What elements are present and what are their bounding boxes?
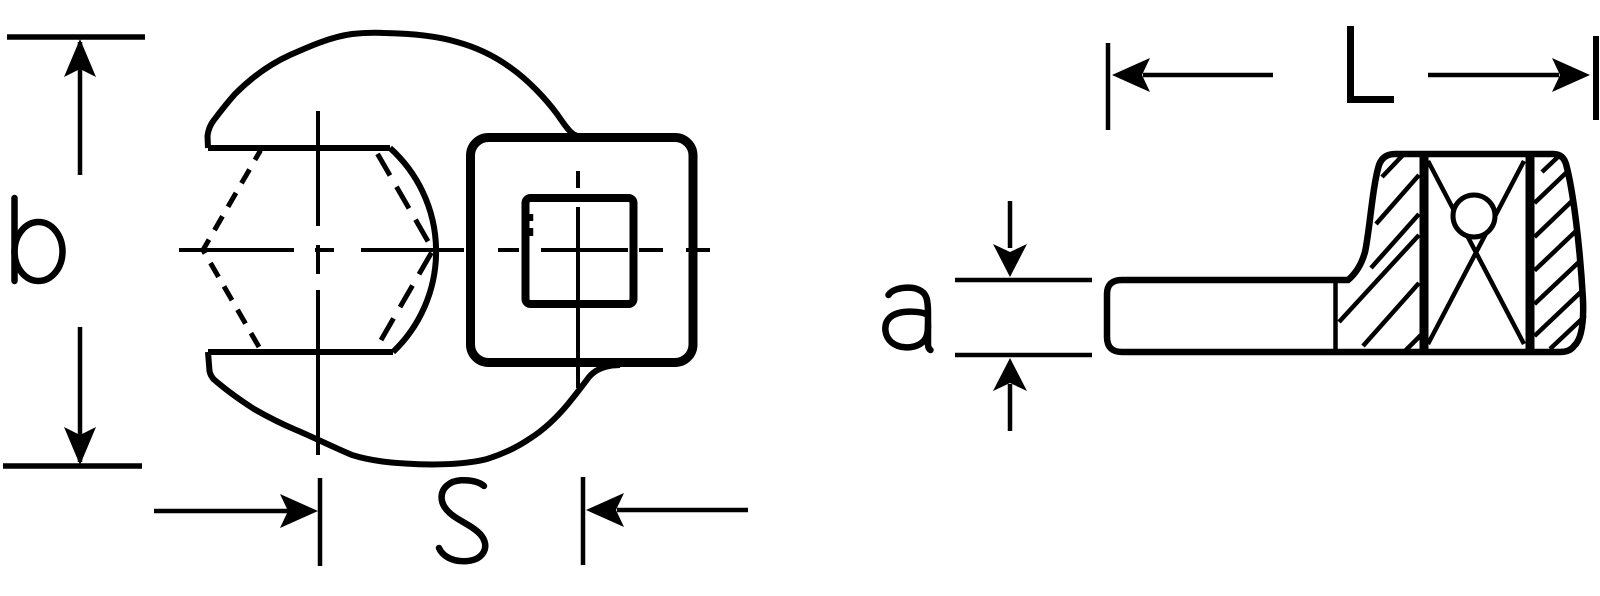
dimension b lower arrowhead bbox=[64, 427, 96, 465]
left hatch lines bbox=[1339, 155, 1423, 352]
dashed hexagon (nut) right edges bbox=[376, 150, 434, 349]
label a bbox=[885, 288, 930, 350]
dimension L right arrow line bbox=[1428, 73, 1559, 78]
right hatch lines bbox=[1535, 155, 1586, 349]
dimension L right arrowhead bbox=[1552, 58, 1590, 92]
dimension S right arrow line bbox=[617, 508, 748, 513]
dimension b upper arrowhead bbox=[64, 39, 96, 77]
drive cavity left wall bbox=[1420, 155, 1429, 351]
horizontal centerline bbox=[179, 248, 710, 252]
dimension b bottom extension line bbox=[3, 463, 142, 469]
dimension a lower arrowhead bbox=[993, 358, 1027, 391]
label b bbox=[15, 198, 63, 281]
label S bbox=[439, 480, 485, 561]
dimension L left extension line bbox=[1106, 43, 1111, 130]
cavity X diagonal 1 bbox=[1428, 161, 1524, 344]
dimension b arrow line lower segment bbox=[78, 327, 83, 462]
dimension a lower arrow line bbox=[1008, 384, 1013, 431]
dimension L left arrowhead bbox=[1112, 58, 1150, 92]
wrench head bottom outline arc bbox=[208, 352, 620, 464]
label L bbox=[1347, 26, 1394, 103]
dimension a upper arrowhead bbox=[993, 244, 1027, 277]
dimension S left arrow line bbox=[154, 509, 288, 514]
dimension a upper arrow line bbox=[1008, 201, 1013, 248]
dimension a upper extension line bbox=[955, 278, 1092, 283]
side view outline (shank and head) bbox=[1107, 154, 1583, 352]
lower jaw line bbox=[208, 349, 393, 355]
cavity X diagonal 2 bbox=[1428, 161, 1524, 344]
small dashes on inner square left edge bbox=[529, 214, 534, 221]
pin hole circle bbox=[1453, 195, 1495, 237]
upper jaw line bbox=[208, 145, 390, 151]
dimension b top extension line bbox=[7, 34, 145, 40]
dimension S right arrowhead bbox=[586, 493, 624, 527]
dimension b arrow line upper segment bbox=[78, 42, 83, 175]
drive body rounded square bbox=[471, 138, 694, 363]
section boundary line bbox=[1333, 282, 1338, 351]
inner square drive hole bbox=[526, 198, 634, 304]
dimension S left arrowhead bbox=[280, 494, 318, 528]
drive cavity right wall bbox=[1526, 155, 1535, 351]
dashed hexagon (nut) left edges bbox=[203, 150, 261, 349]
dimension L left arrow line bbox=[1143, 73, 1273, 78]
wrench head top outline arc bbox=[208, 33, 589, 148]
hexagon vertical centerline bbox=[316, 111, 320, 455]
dimension L right extension line bbox=[1593, 36, 1599, 120]
dimension S right extension line bbox=[581, 477, 586, 565]
jaw mouth arc bbox=[390, 148, 436, 352]
dimension a lower extension line bbox=[955, 353, 1092, 358]
dimension S left extension line bbox=[318, 478, 323, 566]
square vertical centerline bbox=[576, 171, 580, 388]
